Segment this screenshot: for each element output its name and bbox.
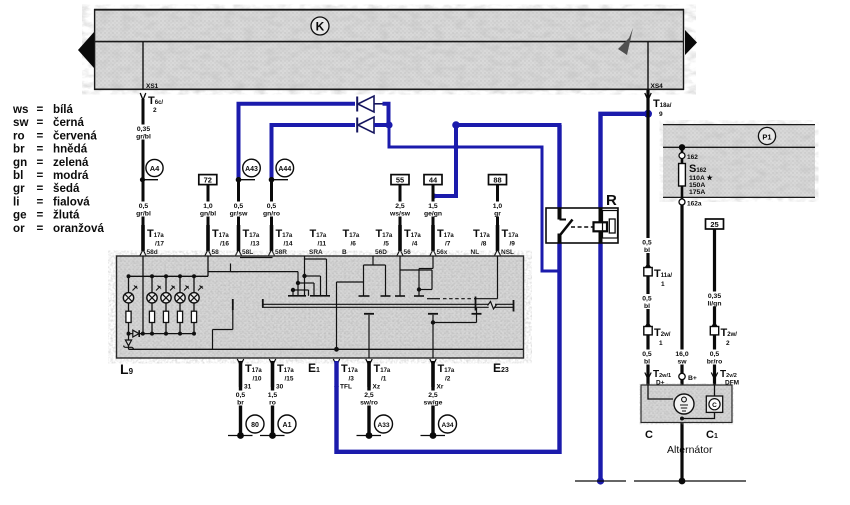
svg-text:=: = — [37, 195, 44, 208]
busbar inner direction mark — [618, 28, 633, 55]
svg-text:hnědá: hnědá — [53, 143, 88, 156]
lamp lower bus with junctions — [127, 332, 197, 336]
svg-text:A34: A34 — [441, 422, 453, 429]
svg-text:1,5: 1,5 — [428, 203, 438, 210]
wire 0,35 gr/bl (T6c to A4) — [135, 99, 152, 180]
wire 2,5 sw/ro — [360, 387, 378, 436]
connector T6c/2 — [140, 93, 163, 114]
svg-text:gn/bl: gn/bl — [200, 211, 216, 218]
svg-text:C: C — [712, 402, 717, 409]
internal wire to Xz pin — [368, 315, 370, 358]
svg-text:gr/bl: gr/bl — [136, 134, 151, 141]
internal ground rail — [129, 348, 524, 350]
terminal T17a/10 31 — [237, 359, 262, 391]
svg-text:ro: ro — [13, 129, 25, 142]
connector box 55 — [391, 175, 409, 185]
zener diode to internal ground — [123, 334, 133, 350]
node 162 — [679, 147, 698, 161]
wire 1,0 gn/bl (72 to T17a/16) — [200, 185, 217, 226]
svg-text:58d: 58d — [147, 249, 158, 256]
svg-text:1,0: 1,0 — [493, 203, 503, 210]
terminal T17a/2 Xr — [430, 359, 455, 391]
wire 2,5 ws/sw (55 to T17a/4) — [389, 185, 411, 226]
svg-text:72: 72 — [204, 176, 212, 185]
svg-text:1,0: 1,0 — [203, 203, 213, 210]
svg-text:gr/sw: gr/sw — [230, 211, 248, 218]
connector T2w/2 — [710, 323, 737, 347]
junction diode outputs — [385, 121, 392, 128]
svg-text:Xz: Xz — [373, 384, 381, 391]
node A43 — [236, 159, 261, 182]
svg-text:SRA: SRA — [309, 249, 323, 256]
svg-text:gn/ro: gn/ro — [263, 211, 280, 218]
terminal T17a/8 NL (stub) — [471, 228, 491, 256]
junction on Xr internal wire — [431, 320, 435, 324]
svg-text:1,5: 1,5 — [268, 392, 278, 399]
svg-text:/8: /8 — [481, 241, 487, 248]
connector box 44 — [424, 175, 442, 185]
svg-text:ge/gn: ge/gn — [424, 211, 442, 218]
resistor R-b — [149, 303, 154, 334]
ground point 80 — [228, 415, 264, 439]
diode 2 — [357, 117, 374, 133]
svg-text:gn: gn — [13, 156, 27, 169]
svg-text:25: 25 — [710, 220, 718, 229]
svg-text:56D: 56D — [375, 249, 387, 256]
node K circle — [311, 17, 329, 35]
svg-text:9: 9 — [659, 111, 663, 118]
blue wire down at x542 then right into relay switch wire — [542, 146, 560, 272]
svg-text:T17a: T17a — [502, 228, 519, 240]
svg-text:T17a: T17a — [245, 363, 262, 375]
svg-text:T11a/: T11a/ — [654, 268, 672, 280]
svg-text:T17a: T17a — [404, 228, 421, 240]
svg-text:58: 58 — [212, 249, 220, 256]
diode 1 — [357, 96, 384, 112]
svg-text:=: = — [37, 222, 44, 235]
svg-text:br/ro: br/ro — [707, 359, 722, 366]
terminal T17a/17 58d — [140, 225, 165, 256]
node 162a — [679, 199, 702, 208]
svg-text:ws/sw: ws/sw — [389, 211, 411, 218]
svg-text:2: 2 — [153, 107, 157, 114]
svg-text:=: = — [37, 169, 44, 182]
svg-text:L9: L9 — [120, 361, 134, 377]
blue wire junction down then right to relay feed — [389, 125, 542, 147]
svg-text:T2w/1: T2w/1 — [653, 369, 671, 380]
svg-text:/14: /14 — [284, 241, 293, 248]
internal double rail — [262, 299, 514, 312]
colour legend — [12, 103, 104, 235]
busbar right arrow — [685, 30, 697, 55]
svg-text:Alternátor: Alternátor — [667, 444, 713, 456]
wire 0,5 gr/bl (A4 to T17a/17) — [135, 180, 152, 226]
wire label 0,5 bl (upper) — [641, 238, 655, 254]
internal NSL branch — [427, 256, 498, 311]
resistor R-c — [163, 303, 168, 334]
alternator C box — [641, 385, 732, 423]
junction blue to 44-wire — [431, 193, 436, 198]
internal TFL branch — [337, 256, 391, 349]
svg-text:gr: gr — [494, 211, 501, 218]
relay R — [546, 192, 618, 243]
lamp L9e — [189, 276, 203, 303]
svg-text:T17a: T17a — [277, 363, 294, 375]
svg-text:bílá: bílá — [53, 103, 74, 116]
wire 1,5 ro — [265, 387, 280, 436]
wire 1,5 ge/gn (44 to T17a/7) — [424, 185, 442, 226]
internal lamp bus — [129, 275, 209, 277]
svg-text:žlutá: žlutá — [53, 209, 80, 222]
svg-text:modrá: modrá — [53, 169, 89, 182]
terminal T17a/3 TFL — [333, 359, 358, 391]
terminal T17a/11 SRA (stub) — [309, 228, 327, 256]
terminal T17a/16 58 — [205, 225, 230, 256]
svg-text:=: = — [37, 116, 44, 129]
internal wire 58d feed — [142, 256, 144, 334]
svg-text:br: br — [13, 143, 25, 156]
svg-text:sw: sw — [677, 359, 687, 366]
ground point A34 — [421, 415, 457, 439]
ground junction blue — [597, 477, 604, 484]
terminal T17a/7 56x — [430, 225, 455, 256]
svg-text:oranžová: oranžová — [53, 222, 104, 235]
resistor R-a — [126, 303, 131, 334]
svg-text:T18a/: T18a/ — [653, 98, 672, 110]
blue wire relay coil to ground — [598, 243, 602, 481]
svg-text:162a: 162a — [687, 201, 702, 208]
svg-text:B+: B+ — [688, 375, 697, 382]
svg-text:2,5: 2,5 — [364, 392, 374, 399]
wire XS4 drop inside busbar — [648, 42, 663, 90]
wire 0,5 br/ro (T2w/2 to DFM) — [706, 335, 724, 385]
svg-text:88: 88 — [493, 176, 501, 185]
svg-text:sw/ge: sw/ge — [424, 400, 443, 407]
svg-text:56x: 56x — [437, 249, 448, 256]
svg-text:=: = — [37, 103, 44, 116]
terminal T17a/5 56D (stub) — [375, 228, 393, 256]
wire label 0,5 bl (middle) — [641, 294, 655, 310]
svg-text:2,5: 2,5 — [395, 203, 405, 210]
svg-text:/6: /6 — [351, 241, 357, 248]
svg-text:TFL: TFL — [340, 384, 352, 391]
node P1 circle — [758, 127, 775, 144]
wire 2,5 sw/ge — [424, 387, 443, 436]
svg-text:0,5: 0,5 — [267, 203, 277, 210]
svg-text:/9: /9 — [510, 241, 516, 248]
svg-text:šedá: šedá — [53, 182, 80, 195]
wire 16,0 sw (fuse to B+) — [673, 205, 691, 481]
svg-text:80: 80 — [251, 422, 259, 429]
svg-text:T17a: T17a — [341, 363, 358, 375]
svg-text:=: = — [37, 143, 44, 156]
svg-text:T2w/: T2w/ — [721, 327, 738, 339]
internal wire to Xr pin — [432, 315, 434, 358]
svg-text:31: 31 — [244, 384, 252, 391]
svg-text:1: 1 — [659, 340, 663, 347]
junction blue to T18a wire — [644, 110, 652, 118]
svg-text:černá: černá — [53, 116, 84, 129]
svg-text:/11: /11 — [318, 241, 327, 248]
svg-text:/17: /17 — [155, 241, 164, 248]
svg-text:0,5: 0,5 — [139, 203, 149, 210]
svg-text:T17a: T17a — [438, 363, 455, 375]
svg-text:E23: E23 — [493, 361, 509, 375]
svg-text:/13: /13 — [251, 241, 260, 248]
svg-text:2: 2 — [726, 340, 730, 347]
terminal T2v/2 DFM — [711, 369, 739, 387]
diode D-L9 on lower bus — [129, 330, 140, 337]
svg-text:0,5: 0,5 — [710, 351, 720, 358]
svg-text:T2v/2: T2v/2 — [720, 369, 737, 380]
svg-text:R: R — [606, 192, 617, 209]
svg-text:162: 162 — [687, 154, 698, 161]
lamp L9c — [161, 276, 175, 303]
svg-text:0,35: 0,35 — [137, 126, 150, 133]
busbar left arrow — [78, 32, 94, 68]
junction on P1 rail — [679, 144, 685, 150]
junction TFL on ground rail — [334, 347, 339, 352]
blue wire relay coil feed from T18a node — [601, 114, 649, 208]
svg-text:bl: bl — [644, 247, 650, 254]
svg-text:58L: 58L — [242, 249, 253, 256]
svg-text:/16: /16 — [220, 241, 229, 248]
svg-text:150A: 150A — [689, 182, 705, 189]
svg-text:NSL: NSL — [501, 249, 514, 256]
svg-text:B: B — [342, 249, 347, 256]
wire 1,0 gr (88 to T17a/9) — [489, 185, 506, 226]
svg-text:br: br — [237, 400, 244, 407]
svg-text:T6c/: T6c/ — [148, 95, 163, 107]
svg-text:/15: /15 — [285, 376, 294, 383]
svg-text:56: 56 — [404, 249, 412, 256]
svg-text:55: 55 — [396, 176, 404, 185]
svg-text:T17a: T17a — [343, 228, 360, 240]
fuse S162 — [679, 159, 714, 199]
terminal T2w/1 D+ — [645, 369, 671, 387]
svg-text:A43: A43 — [245, 166, 258, 173]
svg-text:Xr: Xr — [437, 384, 444, 391]
svg-text:0,5: 0,5 — [642, 351, 652, 358]
junction node on blue bus — [452, 121, 460, 129]
svg-text:A44: A44 — [278, 166, 291, 173]
wire label 0,5 bl (lower) — [641, 350, 655, 366]
comb junction nodes — [291, 274, 307, 292]
svg-text:T17a: T17a — [310, 228, 327, 240]
svg-text:XS1: XS1 — [146, 83, 159, 90]
svg-text:bl: bl — [644, 303, 650, 310]
svg-text:=: = — [37, 156, 44, 169]
svg-text:T17a: T17a — [276, 228, 293, 240]
svg-text:li: li — [13, 195, 19, 208]
terminal B+ — [679, 373, 697, 382]
terminal T17a/6 B (stub) — [342, 228, 360, 256]
blue wire from A44 up to diode 2 — [272, 125, 356, 180]
lamp L9a — [123, 276, 137, 303]
blue wire horizontal to relay switch pin — [456, 123, 562, 127]
svg-text:sw: sw — [13, 116, 29, 129]
svg-text:XS4: XS4 — [651, 83, 664, 90]
node A4 — [140, 159, 163, 182]
ground line right segment — [634, 480, 746, 482]
internal comb wiring E1 — [208, 256, 330, 296]
terminal T17a/4 56 — [397, 225, 422, 256]
blue wire relay switch feed — [557, 125, 561, 208]
blue wire diode2 output to junction — [374, 123, 390, 127]
svg-text:sw/ro: sw/ro — [360, 400, 378, 407]
busbar K (terminal strip) — [94, 9, 684, 90]
svg-text:gr/bl: gr/bl — [136, 211, 151, 218]
terminal T17a/13 58L — [235, 225, 260, 256]
svg-text:C: C — [645, 429, 653, 441]
blue wire tap down to connector 44 wire — [433, 125, 456, 196]
terminal T17a/14 58R — [268, 225, 293, 256]
svg-text:44: 44 — [429, 176, 438, 185]
terminal T17a/15 30 — [269, 359, 294, 391]
svg-text:T17a: T17a — [473, 228, 490, 240]
svg-text:110A ★: 110A ★ — [689, 174, 714, 182]
lamp L9d — [175, 276, 189, 303]
lamp bus junctions — [127, 274, 197, 278]
gate tick Xz — [364, 313, 374, 315]
svg-text:červená: červená — [53, 129, 97, 142]
svg-text:175A: 175A — [689, 189, 705, 196]
ground point A1 — [260, 415, 296, 439]
crossing node blue bus — [453, 144, 459, 150]
internal aux vertical — [476, 308, 478, 323]
svg-text:T2w/: T2w/ — [654, 327, 671, 339]
resistor R-e — [191, 303, 196, 334]
wire 0,5 gr/sw (A43 to T17a/13) — [230, 180, 249, 226]
internal cross link Xr-aux — [433, 322, 477, 324]
junction 56x node — [417, 287, 421, 291]
svg-text:T17a: T17a — [243, 228, 260, 240]
svg-text:bl: bl — [644, 359, 650, 366]
rail break mark — [488, 302, 497, 310]
terminal T17a/9 NSL — [494, 225, 519, 256]
svg-text:=: = — [37, 182, 44, 195]
wire 0,5 gn/ro (A44 to T17a/14) — [263, 180, 281, 226]
svg-text:A4: A4 — [150, 164, 160, 173]
svg-text:T17a: T17a — [437, 228, 454, 240]
connector T11a/1 — [644, 264, 673, 288]
svg-text:/1: /1 — [381, 376, 387, 383]
wire XS1 drop inside busbar — [143, 42, 159, 90]
terminal T17a/1 Xz — [366, 359, 391, 391]
blue wire diode1 output down to junction — [383, 104, 389, 125]
svg-text:T17a: T17a — [147, 228, 164, 240]
svg-text:NL: NL — [471, 249, 480, 256]
svg-text:/4: /4 — [412, 241, 418, 248]
svg-text:A1: A1 — [283, 422, 292, 429]
ground line left segment — [575, 480, 626, 482]
connector box 72 — [199, 175, 217, 185]
wire 0,5 br — [233, 387, 248, 436]
svg-text:16,0: 16,0 — [675, 351, 688, 358]
lamp L9b — [147, 276, 161, 303]
svg-text:bl: bl — [13, 169, 23, 182]
svg-text:or: or — [13, 222, 25, 235]
internal wire 58 feed — [207, 256, 209, 276]
internal 56x branch — [419, 256, 433, 290]
wire T18a/9 from XS4 — [645, 90, 672, 385]
svg-text:ws: ws — [12, 103, 28, 116]
power rail P1 band — [663, 124, 815, 198]
control unit box L9 E1 E23 — [117, 256, 524, 358]
svg-text:ge: ge — [13, 209, 27, 222]
svg-text:A33: A33 — [377, 422, 389, 429]
blue wire TFL run to relay — [337, 243, 560, 452]
svg-text:C1: C1 — [706, 429, 718, 441]
svg-text:T17a: T17a — [376, 228, 393, 240]
svg-text:li/gn: li/gn — [708, 301, 722, 308]
svg-text:/10: /10 — [253, 376, 262, 383]
svg-text:/3: /3 — [349, 376, 355, 383]
svg-text:=: = — [37, 209, 44, 222]
svg-text:58R: 58R — [275, 249, 287, 256]
svg-text:0,35: 0,35 — [708, 293, 721, 300]
svg-text:T17a: T17a — [212, 228, 229, 240]
svg-text:P1: P1 — [762, 133, 771, 142]
connector box 25 — [706, 219, 724, 229]
svg-text:0,5: 0,5 — [642, 296, 652, 303]
gate tick aux — [472, 313, 482, 315]
svg-text:zelená: zelená — [53, 156, 89, 169]
internal 56 branch — [395, 256, 432, 296]
svg-text:=: = — [37, 129, 44, 142]
svg-text:E1: E1 — [308, 361, 320, 375]
node A44 — [269, 159, 294, 182]
svg-text:2,5: 2,5 — [428, 392, 438, 399]
connector T2w/1 — [644, 323, 671, 347]
transistor left on rail — [213, 299, 233, 349]
svg-text:fialová: fialová — [53, 195, 90, 208]
svg-text:/2: /2 — [445, 376, 451, 383]
wire 0,35 li/gn (25 to T2w/2) — [706, 229, 723, 327]
connector box 88 — [489, 175, 507, 185]
svg-text:0,5: 0,5 — [234, 203, 244, 210]
svg-text:0,5: 0,5 — [236, 392, 246, 399]
blue wire from A43 up to diode 1 — [239, 104, 356, 180]
gate tick Xr — [428, 313, 438, 315]
svg-text:/7: /7 — [445, 241, 451, 248]
svg-text:/5: /5 — [384, 241, 390, 248]
svg-text:30: 30 — [276, 384, 284, 391]
svg-text:1: 1 — [661, 281, 665, 288]
ground junction alternator — [679, 478, 686, 485]
svg-text:0,5: 0,5 — [642, 240, 652, 247]
ground point A33 — [357, 415, 393, 439]
resistor R-d — [177, 303, 182, 334]
svg-text:ro: ro — [269, 400, 276, 407]
svg-text:K: K — [316, 20, 325, 34]
svg-text:gr: gr — [13, 182, 25, 195]
svg-text:T17a: T17a — [374, 363, 391, 375]
